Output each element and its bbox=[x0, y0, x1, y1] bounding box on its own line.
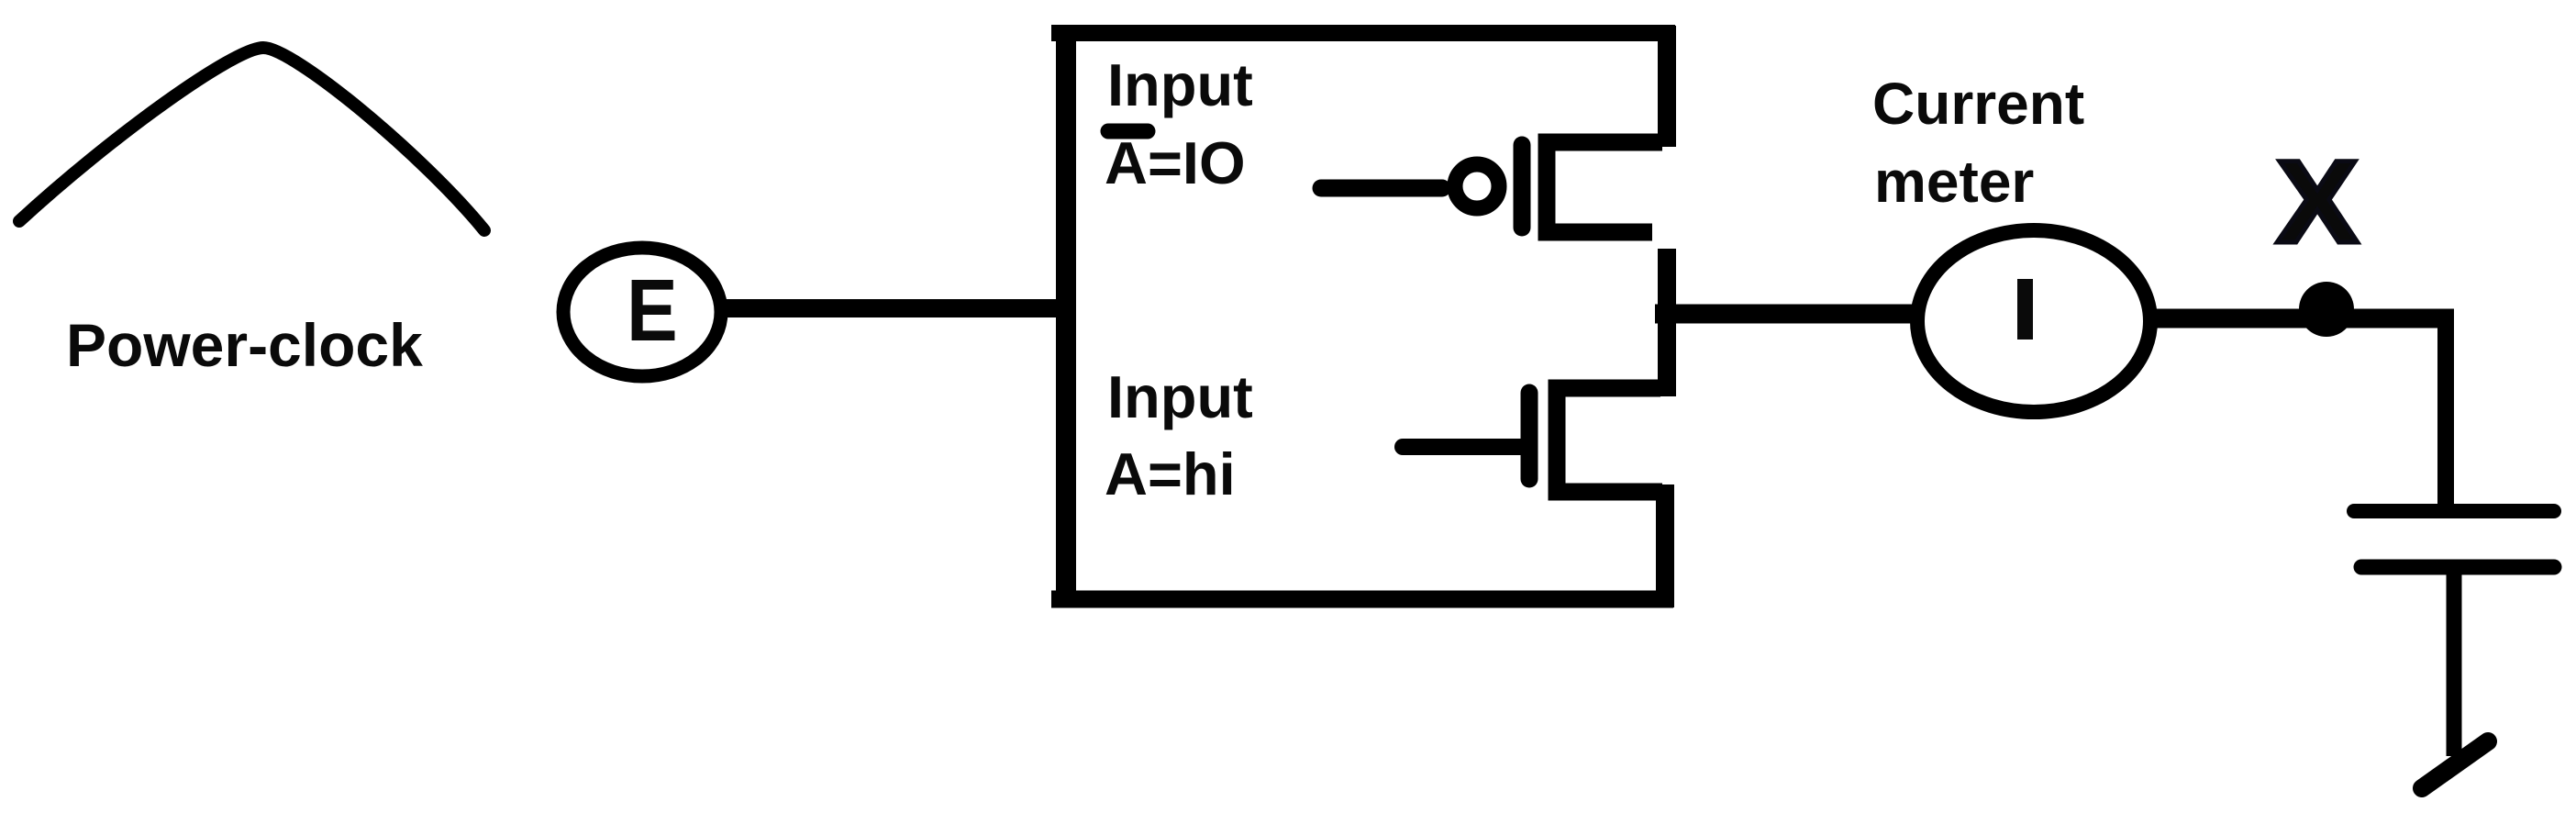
ground symbol bbox=[2422, 741, 2488, 788]
source E circle bbox=[563, 248, 721, 376]
wire current meter to node X bbox=[2154, 309, 2454, 328]
inverter box bottom edge bbox=[1051, 591, 1673, 608]
svg-text:E: E bbox=[627, 262, 678, 361]
overline over A bbox=[1108, 124, 1148, 139]
current meter I letter bbox=[2017, 279, 2033, 340]
inverter box top edge bbox=[1051, 25, 1675, 41]
svg-text:A=hi: A=hi bbox=[1105, 440, 1236, 507]
output node drain junction vertical bbox=[1658, 249, 1676, 396]
transistor Q1 PMOS gate bar bbox=[1514, 145, 1531, 228]
capacitor C top plate bbox=[2354, 504, 2554, 518]
svg-text:A=IO: A=IO bbox=[1105, 129, 1246, 196]
capacitor C bottom plate bbox=[2361, 560, 2554, 575]
current meter circle bbox=[1917, 230, 2150, 412]
svg-text:X: X bbox=[2276, 136, 2359, 267]
svg-text:Power-clock: Power-clock bbox=[66, 311, 423, 379]
wire E to inverter input bbox=[726, 299, 1073, 317]
node X dot bbox=[2299, 282, 2354, 337]
source E letter bbox=[627, 262, 678, 361]
wire capacitor to ground bbox=[2447, 567, 2462, 756]
svg-text:Input: Input bbox=[1107, 51, 1253, 118]
transistor Q1 PMOS gate wire bbox=[1321, 180, 1442, 197]
transistor Q2 NMOS gate wire bbox=[1403, 439, 1523, 455]
inverter box right edge lower NMOS source drop bbox=[1656, 484, 1674, 607]
transistor Q1 PMOS channel with source drain leads bbox=[1547, 142, 1662, 232]
label X bbox=[2276, 136, 2359, 267]
inverter box left edge bbox=[1056, 25, 1076, 607]
transistor Q2 NMOS gate bar bbox=[1521, 393, 1538, 479]
power-clock waveform bbox=[19, 48, 484, 230]
wire node down to capacitor bbox=[2437, 312, 2454, 511]
inverter box right edge upper PMOS source riser bbox=[1658, 26, 1676, 147]
transistor Q1 PMOS gate bubble bbox=[1455, 164, 1499, 208]
svg-text:Input: Input bbox=[1107, 363, 1253, 430]
svg-text:Current: Current bbox=[1872, 71, 2084, 137]
transistor Q2 NMOS channel with drain source leads bbox=[1557, 388, 1662, 492]
wire inverter output to current meter bbox=[1655, 305, 1917, 324]
svg-text:meter: meter bbox=[1874, 149, 2034, 215]
